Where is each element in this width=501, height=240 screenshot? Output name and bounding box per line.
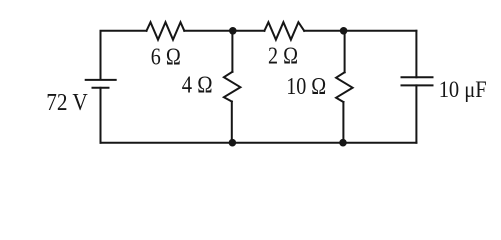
svg-text:72 V: 72 V	[46, 89, 88, 116]
resistor R2 2-ohm zigzag	[264, 22, 304, 40]
node: top junction B (dot)	[340, 27, 348, 35]
resistor R3 4-ohm vertical zigzag	[224, 72, 241, 102]
wire: node A branch upper	[231, 31, 233, 72]
resistor R4 10-ohm vertical zigzag	[336, 72, 353, 102]
wire: left vertical lower (battery to bottom rail)	[100, 88, 102, 143]
wire: top rail right segment (2-ohm to top-right corner)	[304, 30, 416, 32]
battery V1 short plate (-)	[93, 87, 109, 89]
wire: top rail left segment (corner to 6-ohm)	[101, 31, 147, 79]
wire: node A branch lower	[231, 102, 233, 143]
resistor R1 6-ohm zigzag	[147, 22, 185, 40]
svg-text:10 μF: 10 μF	[439, 77, 487, 103]
svg-text:2 Ω: 2 Ω	[268, 43, 298, 70]
svg-text:6 Ω: 6 Ω	[151, 44, 181, 71]
node: bottom junction A (dot)	[229, 139, 237, 147]
svg-text:4 Ω: 4 Ω	[182, 72, 213, 99]
capacitor C1 top plate	[402, 76, 433, 78]
battery V1 long plate (+)	[86, 79, 116, 81]
wire: right vertical lower (capacitor to bottom rail)	[415, 85, 417, 142]
node: top junction A (dot)	[229, 27, 237, 35]
svg-text:10 Ω: 10 Ω	[286, 73, 326, 100]
wire: node B branch upper	[344, 31, 346, 73]
wire: bottom rail	[101, 142, 417, 144]
wire: node B branch lower	[342, 102, 344, 143]
wire: right vertical upper (to capacitor)	[415, 31, 417, 78]
wire: top rail middle segment (6-ohm to 2-ohm)	[184, 30, 264, 32]
node: bottom junction B (dot)	[339, 139, 347, 147]
capacitor C1 bottom plate	[402, 84, 433, 86]
